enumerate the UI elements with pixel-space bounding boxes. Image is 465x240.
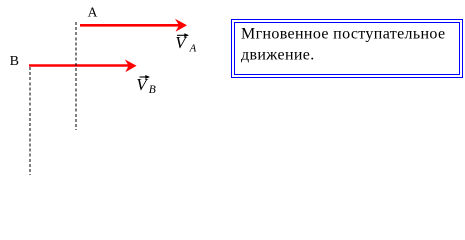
label VA (vector V sub A) — [175, 33, 196, 54]
svg-text:Мгновенное поступательное: Мгновенное поступательное — [241, 25, 445, 42]
caption box (double blue border) — [232, 20, 463, 78]
dashed construction line through A — [75, 22, 77, 130]
svg-text:B: B — [10, 54, 19, 69]
svg-text:движение.: движение. — [241, 47, 315, 64]
caption text — [241, 25, 445, 63]
svg-text:A: A — [189, 43, 197, 55]
svg-text:A: A — [88, 5, 98, 20]
dashed construction line through B — [29, 67, 31, 176]
velocity vector arrow VA (point A) — [80, 19, 187, 32]
svg-text:B: B — [149, 84, 156, 96]
velocity vector arrow VB (point B) — [29, 59, 137, 72]
label VB (vector V sub B) — [136, 75, 156, 96]
